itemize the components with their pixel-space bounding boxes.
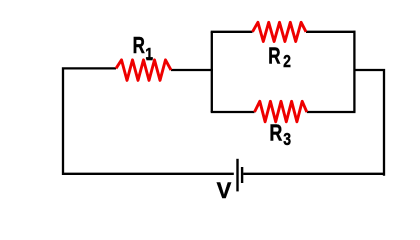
svg-text:R: R	[269, 120, 282, 146]
svg-text:V: V	[217, 178, 232, 203]
svg-text:2: 2	[283, 51, 291, 71]
svg-text:R: R	[133, 34, 146, 59]
svg-text:1: 1	[145, 45, 153, 63]
svg-text:R: R	[268, 44, 281, 69]
svg-text:3: 3	[283, 129, 291, 149]
